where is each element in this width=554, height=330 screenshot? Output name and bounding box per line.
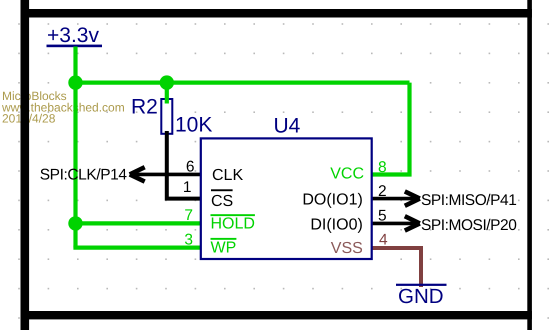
wire VCC pin to rail [372,83,410,175]
svg-text:DO(IO1): DO(IO1) [302,192,362,209]
svg-text:5: 5 [378,207,387,224]
svg-text:3: 3 [184,232,193,249]
wire VSS pin to ground [372,248,421,287]
net label SPI:MISO/P41 [421,192,516,209]
pin CLK label [212,167,243,184]
svg-text:10K: 10K [175,113,212,136]
wire down to WP corner [73,223,77,247]
wire CLK pin with arrow left [130,167,201,181]
svg-text:4: 4 [379,231,388,248]
pin VCC label [330,165,364,182]
pin 5 number [378,207,387,224]
pin 3 number [184,232,193,249]
resistor R2 [161,99,172,134]
net label SPI:MOSI/P20 [421,217,517,234]
svg-text:SPI:CLK/P14: SPI:CLK/P14 [40,167,128,184]
svg-text:8: 8 [378,159,387,176]
svg-text:WP: WP [211,239,237,256]
label U4 [274,115,301,138]
wire +3.3v feed (vertical, node VDD) [73,47,77,83]
pin HOLD label (active low) [211,214,255,232]
svg-text:6: 6 [186,159,195,176]
svg-text:DI(IO0): DI(IO0) [310,216,362,233]
wire rail down to HOLD junction [73,83,77,224]
wire HOLD branch [76,221,201,225]
svg-text:7: 7 [184,207,193,224]
svg-text:CLK: CLK [212,167,243,184]
power label +3.3v [47,24,103,47]
junction at HOLD branch [68,216,82,230]
label R2 [131,95,158,118]
pin VSS label [331,240,363,257]
junction at +3.3v rail left [68,75,82,89]
pin WP label (active low) [211,238,237,257]
wire resistor stub from rail [165,83,169,104]
junction at resistor stub [160,75,174,89]
wire WP branch [73,246,200,250]
pin 6 number [186,159,195,176]
wire top +3.3v rail (horizontal) [76,80,410,84]
pin 2 number [378,183,387,200]
svg-text:2: 2 [378,183,387,200]
pin CS label (active low) [211,189,233,210]
svg-text:1: 1 [183,179,192,196]
wire DO(IO1) pin with arrow right to SPI:MISO/P41 [372,191,420,205]
svg-text:VSS: VSS [331,240,363,257]
ground [396,284,447,308]
value 10K [175,113,212,136]
svg-text:SPI:MOSI/P20: SPI:MOSI/P20 [421,217,517,234]
svg-text:R2: R2 [131,95,158,118]
svg-text:CS: CS [211,193,233,210]
watermark text [1,89,125,125]
wire DI(IO0) pin with arrow right to SPI:MOSI/P20 [372,216,420,230]
pin 4 number [379,231,388,248]
wire resistor bottom to CS pin [167,131,201,199]
svg-text:U4: U4 [274,115,301,138]
svg-text:HOLD: HOLD [211,216,255,233]
pin 1 number [183,179,192,196]
svg-text:VCC: VCC [330,165,364,182]
svg-text:SPI:MISO/P41: SPI:MISO/P41 [421,192,516,209]
pin 8 number [378,159,387,176]
pin 7 number [184,207,193,224]
pin DI(IO0) label [310,216,362,233]
net label SPI:CLK/P14 [40,167,128,184]
svg-text:GND: GND [398,285,444,308]
pin DO(IO1) label [302,192,362,209]
IC U4 body (SPI flash) [201,138,372,259]
svg-text:+3.3v: +3.3v [47,24,99,47]
